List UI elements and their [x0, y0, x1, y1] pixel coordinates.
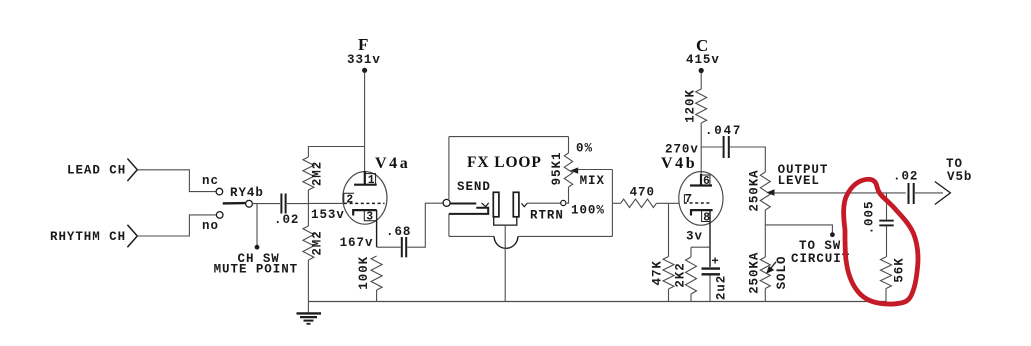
potentiometer OUTPUT LEVEL 250KA	[747, 163, 828, 211]
svg-text:95K1: 95K1	[550, 152, 564, 186]
wire V4a grid	[308, 202, 343, 204]
svg-text:250KA: 250KA	[747, 169, 761, 211]
resistor 56K	[881, 257, 907, 302]
svg-text:TO SW: TO SW	[799, 239, 841, 253]
wire between pots	[764, 210, 766, 257]
svg-text:250KA: 250KA	[747, 252, 761, 294]
svg-text:SOLO: SOLO	[775, 256, 789, 290]
svg-text:100K: 100K	[357, 256, 371, 290]
wire cathode branch	[691, 246, 710, 248]
jack RTRN	[513, 192, 566, 222]
wire C.02 to V4a grid rail	[287, 203, 308, 205]
svg-text:3: 3	[366, 211, 374, 224]
svg-text:331v: 331v	[347, 53, 381, 67]
red annotation circle around .005/56K	[844, 179, 918, 304]
wire .68 to SEND jack	[407, 203, 443, 247]
capacitor .047	[701, 124, 742, 158]
svg-text:3v: 3v	[686, 230, 703, 244]
potentiometer SOLO 250KA	[747, 252, 789, 294]
resistor 2K2	[673, 257, 696, 294]
svg-text:2K2: 2K2	[673, 262, 687, 287]
svg-text:LEAD CH: LEAD CH	[67, 164, 126, 178]
resistor 120K	[683, 89, 706, 123]
resistor 47K	[651, 203, 675, 301]
wire LEAD CH to nc contact	[137, 170, 216, 192]
svg-text:CIRCUIT: CIRCUIT	[791, 252, 850, 266]
svg-text:V4b: V4b	[661, 155, 697, 172]
wire plate feedback top	[308, 147, 364, 158]
resistor 100K	[357, 256, 382, 290]
wire .02 to V5b	[915, 192, 943, 194]
svg-text:470: 470	[630, 185, 655, 199]
pin 1	[365, 174, 376, 187]
svg-text:.047: .047	[705, 124, 742, 138]
wire .047 to OUTPUT LEVEL pot	[730, 147, 765, 172]
svg-text:0%: 0%	[576, 142, 593, 156]
svg-text:2u2: 2u2	[715, 275, 729, 300]
wire loop box right edge	[611, 170, 613, 237]
node F 331v supply	[347, 35, 381, 73]
wire 120K to V4b plate	[700, 123, 702, 174]
node TO SW CIRCUIT	[765, 225, 850, 266]
wire loop box left edge	[448, 137, 450, 200]
svg-text:6: 6	[703, 175, 711, 188]
svg-text:100%: 100%	[571, 204, 605, 218]
capacitor .02 (mute cap)	[274, 194, 299, 228]
pin 8	[702, 210, 711, 224]
svg-text:LEVEL: LEVEL	[778, 174, 820, 188]
wire F to V4a plate	[364, 73, 366, 172]
wire C to 120K	[700, 73, 702, 89]
wire 100K to ground rail	[376, 290, 378, 302]
capacitor .68	[377, 225, 412, 257]
pin 2	[344, 193, 354, 206]
triode U V4b	[661, 155, 723, 267]
wire OUTPUT wiper to .02	[774, 192, 906, 194]
node C 415v supply	[686, 36, 720, 73]
off-page arrow TO V5b	[935, 157, 973, 205]
jack body and sleeve	[494, 217, 517, 225]
svg-text:120K: 120K	[683, 89, 697, 123]
pin 3	[364, 210, 376, 223]
wire MIX wiper to 470	[578, 169, 613, 171]
svg-text:47K: 47K	[651, 260, 665, 285]
node LEAD CH input	[67, 159, 137, 182]
svg-text:56K: 56K	[893, 257, 907, 282]
ground	[297, 302, 322, 324]
wire RY4b common to C.02	[252, 203, 280, 205]
svg-text:2M2: 2M2	[311, 230, 325, 255]
svg-text:F: F	[358, 35, 369, 54]
svg-text:SEND: SEND	[457, 180, 491, 194]
svg-text:no: no	[202, 219, 219, 233]
wire sleeve to ground	[504, 225, 506, 301]
wire ground rail	[308, 301, 886, 303]
capacitor .02 output	[893, 170, 918, 205]
svg-text:RY4b: RY4b	[230, 186, 264, 200]
svg-text:V5b: V5b	[947, 170, 972, 184]
svg-text:2: 2	[346, 193, 354, 206]
svg-text:.005: .005	[862, 201, 876, 235]
svg-text:RHYTHM CH: RHYTHM CH	[50, 230, 126, 244]
svg-text:2M2: 2M2	[311, 161, 325, 186]
jack SEND	[443, 180, 499, 217]
svg-text:8: 8	[703, 211, 711, 224]
node RHYTHM CH input	[50, 225, 137, 247]
potentiometer MIX 95K1	[550, 137, 605, 218]
resistor 470	[612, 185, 679, 207]
resistor 2M2 upper	[303, 157, 325, 190]
pin 7	[684, 193, 692, 206]
svg-text:MUTE POINT: MUTE POINT	[214, 262, 299, 276]
svg-text:FX LOOP: FX LOOP	[467, 154, 542, 171]
svg-text:+: +	[712, 255, 720, 269]
capacitor .005	[862, 193, 893, 257]
capacitor 2u2 electrolytic	[702, 255, 729, 302]
svg-text:.02: .02	[893, 170, 918, 184]
pin 6	[701, 175, 711, 188]
svg-text:.68: .68	[386, 225, 411, 239]
svg-text:MIX: MIX	[580, 174, 605, 188]
svg-text:TO: TO	[946, 157, 963, 171]
svg-text:415v: 415v	[686, 53, 720, 67]
svg-text:nc: nc	[202, 174, 219, 188]
svg-text:153v: 153v	[311, 208, 345, 222]
wire rail mid	[307, 190, 309, 226]
svg-text:167v: 167v	[340, 236, 374, 250]
svg-text:7: 7	[685, 193, 693, 206]
svg-text:V4a: V4a	[375, 155, 410, 172]
wire rail to ground	[307, 260, 309, 302]
wire loop box top edge	[449, 136, 569, 138]
node CH SW MUTE POINT	[214, 204, 299, 277]
op-amp triode U V4a	[343, 155, 411, 247]
wire RHYTHM CH to no contact	[137, 215, 216, 236]
svg-text:1: 1	[368, 174, 376, 187]
resistor 2M2 lower	[303, 226, 325, 260]
svg-text:.02: .02	[274, 213, 299, 227]
relay RY4b	[202, 174, 264, 233]
svg-text:RTRN: RTRN	[530, 209, 564, 223]
wire RTRN to MIX pot bottom	[566, 187, 569, 203]
wire loop box bottom edge with hop	[449, 235, 494, 237]
